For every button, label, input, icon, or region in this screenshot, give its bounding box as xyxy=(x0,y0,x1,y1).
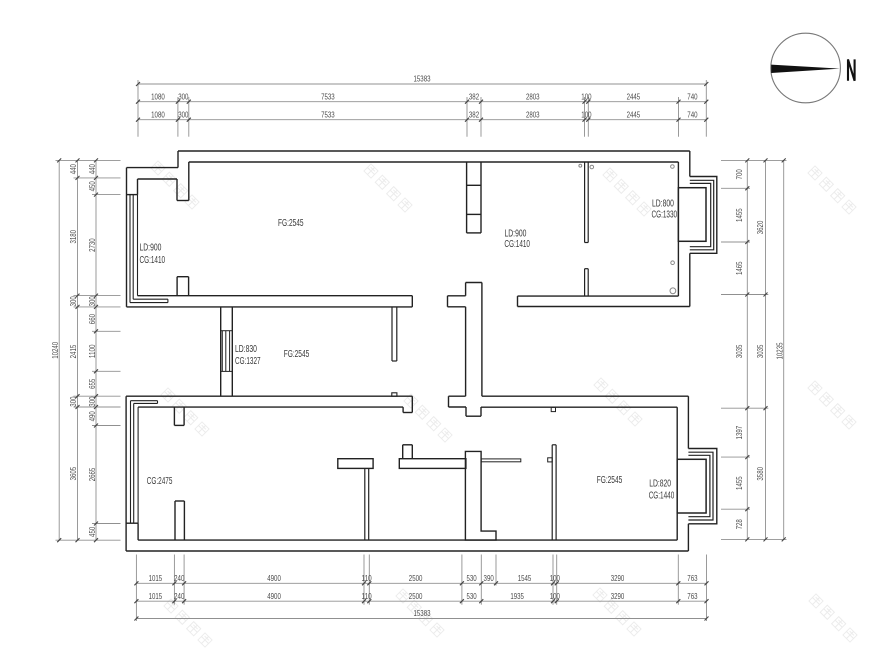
svg-text:10235: 10235 xyxy=(775,342,785,359)
svg-text:740: 740 xyxy=(687,109,697,119)
svg-text:1935: 1935 xyxy=(510,591,524,601)
svg-text:1015: 1015 xyxy=(149,591,163,601)
svg-text:100: 100 xyxy=(581,109,591,119)
svg-text:3035: 3035 xyxy=(734,344,744,358)
svg-text:300: 300 xyxy=(87,296,97,306)
svg-text:10240: 10240 xyxy=(50,342,60,359)
svg-text:530: 530 xyxy=(467,573,477,583)
svg-text:2500: 2500 xyxy=(409,573,423,583)
svg-text:382: 382 xyxy=(469,91,479,101)
svg-text:2500: 2500 xyxy=(409,591,423,601)
svg-text:110: 110 xyxy=(362,591,372,601)
svg-text:440: 440 xyxy=(87,164,97,174)
svg-text:4900: 4900 xyxy=(267,591,281,601)
svg-text:3290: 3290 xyxy=(611,591,625,601)
svg-text:100: 100 xyxy=(581,91,591,101)
svg-text:CG:1410: CG:1410 xyxy=(504,239,530,250)
svg-text:655: 655 xyxy=(87,378,97,388)
svg-text:1397: 1397 xyxy=(734,426,744,440)
svg-text:3180: 3180 xyxy=(68,230,78,244)
svg-text:100: 100 xyxy=(550,591,560,601)
svg-text:LD:820: LD:820 xyxy=(649,479,671,490)
svg-text:3290: 3290 xyxy=(611,573,625,583)
svg-text:240: 240 xyxy=(174,591,184,601)
svg-text:450: 450 xyxy=(87,527,97,537)
svg-text:CG:1330: CG:1330 xyxy=(652,210,678,221)
svg-text:3620: 3620 xyxy=(755,220,765,234)
svg-text:660: 660 xyxy=(87,314,97,324)
svg-text:CG:1327: CG:1327 xyxy=(235,356,261,367)
svg-text:1455: 1455 xyxy=(734,208,744,222)
svg-text:LD:800: LD:800 xyxy=(652,199,674,210)
svg-text:728: 728 xyxy=(734,519,744,529)
svg-text:CG:2475: CG:2475 xyxy=(147,476,173,487)
svg-text:1455: 1455 xyxy=(734,476,744,490)
svg-text:FG:2545: FG:2545 xyxy=(278,218,304,229)
svg-text:FG:2545: FG:2545 xyxy=(284,349,310,360)
svg-text:7533: 7533 xyxy=(321,91,335,101)
svg-text:1080: 1080 xyxy=(151,109,165,119)
svg-text:300: 300 xyxy=(87,396,97,406)
svg-text:CG:1410: CG:1410 xyxy=(140,255,166,266)
svg-text:4900: 4900 xyxy=(267,573,281,583)
svg-text:3580: 3580 xyxy=(755,467,765,481)
svg-text:LD:900: LD:900 xyxy=(140,242,162,253)
svg-text:1465: 1465 xyxy=(734,261,744,275)
svg-text:2803: 2803 xyxy=(526,91,540,101)
svg-text:240: 240 xyxy=(174,573,184,583)
svg-text:FG:2545: FG:2545 xyxy=(597,475,623,486)
svg-text:763: 763 xyxy=(687,573,697,583)
svg-text:2445: 2445 xyxy=(627,91,641,101)
svg-text:390: 390 xyxy=(484,573,494,583)
svg-text:1545: 1545 xyxy=(518,573,532,583)
svg-text:LD:830: LD:830 xyxy=(235,344,257,355)
svg-text:CG:1440: CG:1440 xyxy=(649,491,675,502)
svg-text:7533: 7533 xyxy=(321,109,335,119)
svg-text:300: 300 xyxy=(68,396,78,406)
svg-text:450: 450 xyxy=(87,181,97,191)
svg-text:1100: 1100 xyxy=(87,344,97,358)
svg-text:3605: 3605 xyxy=(68,467,78,481)
svg-text:300: 300 xyxy=(178,91,188,101)
svg-text:2730: 2730 xyxy=(87,238,97,252)
svg-text:110: 110 xyxy=(362,573,372,583)
svg-text:300: 300 xyxy=(178,109,188,119)
svg-text:2665: 2665 xyxy=(87,467,97,481)
svg-text:740: 740 xyxy=(687,91,697,101)
svg-text:2445: 2445 xyxy=(627,109,641,119)
svg-text:2803: 2803 xyxy=(526,109,540,119)
svg-text:1015: 1015 xyxy=(149,573,163,583)
svg-text:490: 490 xyxy=(87,411,97,421)
svg-text:15383: 15383 xyxy=(414,608,431,618)
svg-text:100: 100 xyxy=(550,573,560,583)
svg-text:15383: 15383 xyxy=(414,74,431,84)
svg-text:382: 382 xyxy=(469,109,479,119)
svg-text:530: 530 xyxy=(467,591,477,601)
svg-text:1080: 1080 xyxy=(151,91,165,101)
svg-text:700: 700 xyxy=(734,169,744,179)
svg-text:300: 300 xyxy=(68,296,78,306)
svg-text:2415: 2415 xyxy=(68,345,78,359)
svg-text:3035: 3035 xyxy=(755,344,765,358)
svg-text:763: 763 xyxy=(687,591,697,601)
svg-text:440: 440 xyxy=(68,164,78,174)
